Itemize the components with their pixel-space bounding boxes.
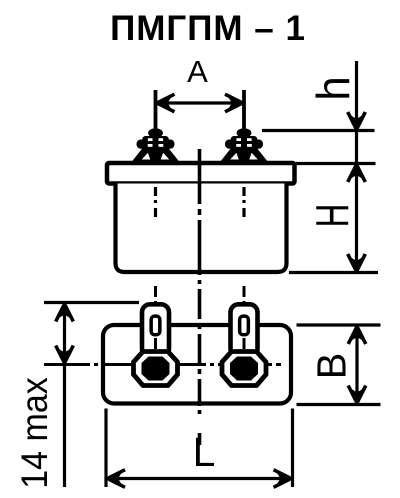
extension line body right (L) <box>291 409 294 488</box>
svg-text:L: L <box>193 429 216 475</box>
vertical centerline left lug <box>154 286 157 304</box>
capacitor lid (side view) <box>107 163 295 184</box>
H arrow down <box>348 254 366 271</box>
dimension B vertical line <box>355 325 358 405</box>
dimension A line <box>156 101 245 104</box>
terminal insulator left <box>132 128 180 162</box>
B arrow up <box>348 327 366 344</box>
extension line body top right (B) <box>297 323 381 326</box>
extension line body left (L) <box>104 409 107 488</box>
svg-text:ПМГПМ – 1: ПМГПМ – 1 <box>110 9 306 48</box>
central axis centerline (bottom view) <box>198 289 202 406</box>
lug terminal left <box>134 304 178 385</box>
extension line body bottom (H) <box>289 271 378 274</box>
h/H shared arrow up <box>348 165 366 182</box>
svg-text:H: H <box>308 204 358 228</box>
dimension 14 max vertical line <box>63 303 66 488</box>
internal lead stub left (dash-dot) <box>154 187 157 219</box>
wire lead right (A extension line) <box>242 90 246 162</box>
svg-text:A: A <box>187 54 208 89</box>
internal lead stub right (dash-dot) <box>242 187 245 219</box>
svg-text:h: h <box>307 76 359 100</box>
dimension h/H vertical line <box>355 61 358 273</box>
central axis centerline (side view) <box>198 149 202 284</box>
lug terminal right <box>222 304 266 385</box>
B arrow down <box>348 386 366 403</box>
svg-text:B: B <box>308 353 355 380</box>
extension line lug top (14 max) <box>44 301 139 304</box>
centerline dash inside left lug <box>154 338 157 349</box>
svg-text:14 max: 14 max <box>14 377 56 489</box>
L arrow left <box>108 470 125 488</box>
extension line body bottom right (B) <box>297 403 381 406</box>
h arrow down <box>348 112 366 129</box>
extension line lid top (h/H) <box>296 162 376 165</box>
capacitor body (top view) <box>103 325 291 404</box>
wire lead left (A extension line) <box>154 90 158 162</box>
14 max arrow down <box>56 346 74 363</box>
L arrow right <box>274 470 291 488</box>
capacitor body (side view) <box>116 184 287 273</box>
14 max arrow up <box>56 305 74 322</box>
dimension A arrow left <box>158 94 175 112</box>
vertical centerline right lug <box>243 286 246 304</box>
extension line terminal top (h) <box>262 129 375 132</box>
dimension L line <box>106 477 293 480</box>
terminal insulator right <box>220 128 268 162</box>
centerline dash inside right lug <box>243 338 246 349</box>
dimension A arrow right <box>225 94 242 112</box>
horizontal centerline through nuts <box>44 363 281 366</box>
